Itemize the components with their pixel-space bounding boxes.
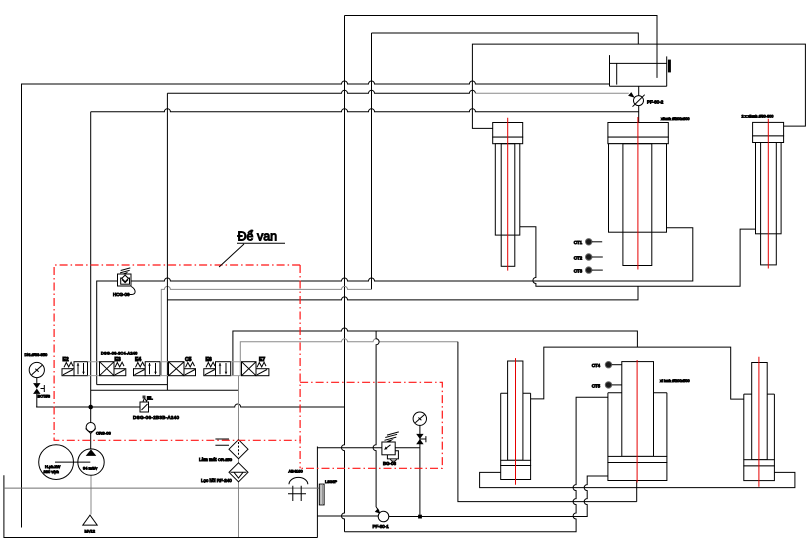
flow meter PF-80-1 — [378, 511, 389, 522]
cylinder bottom-mid band — [608, 456, 667, 462]
cylinder bottom-right rod — [752, 363, 768, 460]
directional valve V1 port gap edges — [88, 362, 100, 376]
svg-text:AB4160: AB4160 — [289, 468, 304, 473]
directional valve V2 position box arrows — [145, 362, 160, 376]
svg-text:E3: E3 — [115, 357, 121, 363]
cylinder bottom-left block — [501, 466, 531, 480]
svg-text:Để van: Để van — [238, 230, 278, 244]
tank outline — [4, 475, 318, 537]
cylinder top-left rod — [501, 144, 515, 267]
arrowhead into PF-80-1 — [375, 509, 381, 514]
wire bus2 pilot line to PF-80-2 (y=92.8) black part — [167, 90, 475, 93]
level gauge LS36P — [319, 484, 324, 505]
wire top pilot (y=32.5) dropping to enclosure line — [372, 33, 639, 44]
wire middle-bottom rod-side port to bottom bus y=531.3 — [345, 397, 608, 532]
cylinder top-mid cap band — [608, 137, 668, 144]
wire drop x=457.4 to bus y=501.1 feeding middle-bottom cap port — [458, 342, 637, 502]
svg-text:MV12: MV12 — [85, 528, 96, 533]
svg-text:94 m3/v: 94 m3/v — [83, 465, 97, 470]
svg-text:LS36P: LS36P — [325, 479, 337, 484]
cylinder top-left cap band — [493, 137, 523, 144]
directional valve V3 position box crossed — [242, 362, 257, 376]
svg-text:C5: C5 — [185, 357, 192, 363]
pump P1 — [78, 449, 104, 475]
flow meter PF-80-2 stem — [638, 86, 640, 122]
centerline cylinder bottom-right — [758, 357, 760, 487]
svg-text:E4: E4 — [135, 357, 141, 363]
centerline cylinder bottom-mid — [636, 360, 638, 483]
wire valve V2 riser x=166.9 from bus2 through valve — [166, 93, 168, 390]
directional valve V2 port gap edges — [160, 362, 169, 376]
wire grey valve V3 right riser branch (y=341.3) — [240, 339, 458, 376]
svg-text:CT1: CT1 — [574, 240, 583, 245]
wire valve V1 right port link y=384.1 — [97, 384, 168, 386]
cylinder top-mid cap — [608, 123, 668, 138]
wire pump pressure bus y=406.5 — [36, 404, 344, 407]
svg-text:E2: E2 — [63, 357, 69, 363]
svg-text:xi lanh Ø200x500: xi lanh Ø200x500 — [660, 379, 690, 383]
cylinder bottom-right block — [744, 466, 775, 481]
wire pump suction drop — [90, 475, 92, 514]
return filter RF-240 — [229, 463, 248, 482]
wire gauge branch x=419.4 down to flow bus dot — [419, 425, 421, 516]
gauge near BG-06 — [413, 412, 426, 425]
wire top feed (y=15) with dip tube into vessel — [345, 16, 658, 78]
wire enclosure pipe y=43.6 joining both top cylinder caps — [472, 44, 805, 128]
flow meter PF-80-2 — [634, 96, 644, 106]
vessel right wall — [666, 56, 668, 86]
svg-text:CT5: CT5 — [592, 383, 601, 388]
sensor CT5 — [605, 382, 611, 388]
cylinder top-mid barrel — [609, 144, 667, 233]
svg-text:E6: E6 — [206, 357, 212, 363]
directional valve V3 port gap edges — [231, 362, 242, 376]
cylinder bottom-right band — [744, 460, 775, 466]
svg-text:EL: EL — [147, 395, 153, 400]
cylinder bottom-left band — [501, 460, 531, 465]
shutoff valve BCT under gauge — [36, 378, 38, 384]
cylinder top-left barrel — [495, 144, 520, 235]
wire BG-06 supply from tank wall (y=447.2) — [317, 447, 420, 449]
svg-text:DSG-06-3C4-A240: DSG-06-3C4-A240 — [101, 351, 138, 355]
wire valve tank-return bus y=389.7 — [91, 389, 239, 391]
wire valve V1 left riser x=90.2 from bus3 to pump via CRG-06 — [90, 112, 92, 449]
sensor CT1 — [586, 239, 592, 245]
wire valve V3 left riser branch (y=330.5) — [233, 328, 638, 376]
shaft line motor-pump — [55, 461, 90, 463]
directional valve V1 position box arrows — [74, 362, 88, 376]
cylinder top-right cap — [753, 122, 784, 135]
tank right wall — [316, 447, 318, 538]
wire rod-side link of top-left and top-right cylinders (y=285.8) — [520, 227, 756, 287]
svg-text:H.ph.kW: H.ph.kW — [45, 464, 61, 469]
wire bus1 tank-return top (y=83.5) with left drop into tank — [22, 81, 610, 528]
tank fluid line — [4, 487, 319, 489]
cylinder bottom-mid rod — [622, 362, 654, 457]
valve HCG-06 — [120, 268, 130, 273]
svg-text:CT3: CT3 — [574, 269, 583, 274]
svg-text:DSG-06-2B3B-A240: DSG-06-2B3B-A240 — [133, 415, 180, 420]
sensor CT3 — [586, 267, 592, 273]
cylinder top-mid rod — [623, 144, 652, 266]
svg-text:Lọc hồi RF-240: Lọc hồi RF-240 — [201, 478, 232, 483]
wire vertical bus A x=344 from top feed to bottom bus — [342, 16, 345, 532]
directional valve V2 position box crossed — [169, 362, 185, 376]
cylinder top-right barrel — [756, 143, 782, 234]
cylinder bottom-left barrel — [501, 393, 531, 460]
svg-text:HCG-06: HCG-06 — [113, 292, 130, 297]
cooler OR-250 — [215, 439, 229, 445]
cylinder bottom-left rod — [508, 361, 523, 460]
vessel body — [610, 63, 667, 86]
svg-text:PF-80-1: PF-80-1 — [373, 524, 390, 529]
centerline cylinder bottom-left — [515, 358, 517, 485]
centerline cylinder top-mid — [637, 117, 639, 270]
svg-text:CT2: CT2 — [574, 255, 583, 260]
svg-text:xilanh Ø200x600: xilanh Ø200x600 — [661, 117, 690, 121]
vessel top (open-top reservoir) left wall — [609, 55, 611, 86]
cylinder bottom-right barrel — [744, 394, 775, 460]
wire rod-side link of bottom-left and bottom-right cylinders (y=346.6) — [531, 347, 744, 399]
wire vertical x=375.6 from valve branch through BG-06 area to PF-80-1 — [373, 331, 379, 507]
centerline cylinder top-left — [507, 118, 509, 271]
sensor CT4 — [605, 362, 611, 368]
wire bus2 grey part to PF-80-2 arrow — [475, 92, 628, 94]
svg-text:CT4: CT4 — [592, 363, 601, 368]
directional valve V1 position box crossed — [100, 362, 115, 376]
wire tank suction to PF-80-1 (y=515.5) — [317, 515, 378, 517]
sensor CT2 — [586, 254, 592, 260]
wire frame bus y=487.1 linking bottom-left and bottom-right cylinder blocks — [480, 472, 795, 487]
svg-text:380 v/ph: 380 v/ph — [44, 469, 59, 474]
junction square dot flow bus — [418, 515, 422, 519]
wire return riser x=238 to cooler and filter — [238, 376, 240, 538]
cylinder top-right cap band — [753, 136, 784, 143]
check valve CRG-06 — [86, 423, 95, 432]
svg-text:2 x xilanh Ø80-600: 2 x xilanh Ø80-600 — [742, 115, 774, 119]
vessel rod end bracket — [668, 60, 671, 73]
gauge DN-63 top-left — [29, 362, 44, 377]
svg-text:BG-06: BG-06 — [383, 461, 397, 466]
directional valve V3 position box arrows — [216, 362, 231, 376]
wire P1 valve V1 to middle-top cylinder rod-side (y=280.5) — [97, 228, 693, 385]
solenoid valve EL — [143, 398, 149, 402]
motor M — [39, 445, 74, 480]
wire valve V2 branch (y=299.4) rising at x=637.5 — [167, 286, 638, 300]
arrowhead into PF-80-2 — [628, 92, 635, 98]
relief valve BG-06 — [385, 432, 399, 440]
cylinder top-left cap — [493, 123, 523, 138]
suction strainer MV12 — [83, 515, 97, 525]
needle valve near BG-06 — [416, 434, 423, 439]
svg-text:PF-80-2: PF-80-2 — [647, 99, 664, 104]
wire PF-80-1 output to middle-bottom cap block (y=516) — [389, 476, 608, 517]
svg-text:OR-250: OR-250 — [218, 457, 233, 462]
cylinder bottom-mid block — [608, 463, 667, 481]
wire bus3 pump pressure to PF-80-2 (y=111.2) — [91, 109, 639, 112]
svg-text:DN-Ø63-350: DN-Ø63-350 — [25, 352, 48, 357]
breather AB4160 — [289, 477, 308, 484]
svg-text:BCT#3: BCT#3 — [38, 394, 51, 399]
red dash-dot box De van — [54, 265, 442, 468]
cylinder bottom-mid barrel — [608, 393, 667, 457]
vessel piston line — [616, 63, 618, 84]
svg-text:Làm mát: Làm mát — [199, 457, 217, 462]
wire vertical bus B x=371 from top pilot to grey wire — [371, 33, 373, 289]
cylinder top-right rod — [761, 143, 777, 265]
wire grey valve V2 left riser to bus B (y=288.9) — [161, 286, 371, 375]
centerline cylinder top-right — [767, 119, 769, 269]
junction dot pump bus — [88, 405, 93, 410]
svg-text:CRG-06: CRG-06 — [96, 430, 111, 435]
